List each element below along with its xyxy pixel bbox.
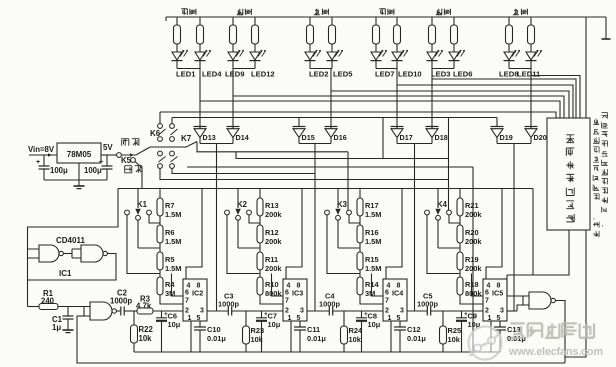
wire: rail to resistor at x=509: [508, 17, 510, 25]
resistor R20 200k: [457, 225, 463, 243]
svg-text:800k: 800k: [465, 289, 482, 298]
svg-text:800k: 800k: [265, 289, 282, 298]
resistor R12 200k: [257, 225, 263, 243]
wire: manual common bus: [150, 146, 185, 148]
wire: right contact tap: [249, 215, 260, 223]
switch K2 right contact: [247, 210, 252, 215]
wire: relay bus from group 5: [432, 79, 576, 118]
svg-text:1000p: 1000p: [110, 297, 132, 306]
capacitor C11 0.01μ on pin5: [299, 321, 301, 327]
wire: rail to resistor at x=310: [309, 17, 311, 25]
diode D16: [325, 126, 338, 128]
wire: rail drop to relay box top: [585, 17, 587, 118]
resistor (LED ballast) #4: [252, 25, 259, 44]
svg-text:R20: R20: [465, 228, 479, 237]
wire: rail to resistor at x=397: [396, 17, 398, 25]
svg-text:R12: R12: [265, 228, 279, 237]
LED LED12: [250, 52, 260, 60]
wire: pin7 link: [160, 295, 183, 304]
capacitor C9 10μ: [461, 311, 463, 318]
switch K7 contact pair: [170, 151, 175, 156]
wire: node to R1: [28, 306, 40, 308]
wire: gate IC1c output to C2: [116, 310, 120, 312]
capacitor input 100u: [43, 155, 45, 166]
wire: rail to resistor at x=432: [431, 17, 433, 25]
wire: pair join jog: [376, 68, 397, 70]
svg-text:R13: R13: [265, 201, 279, 210]
svg-text:LED3: LED3: [431, 70, 450, 79]
label: lamp color 绿色: [181, 9, 187, 15]
diode D17: [391, 126, 404, 128]
wire: D13/D14 anodes joined: [200, 143, 233, 145]
svg-text:100μ: 100μ: [50, 166, 68, 175]
diode D14: [227, 126, 240, 128]
wire: pin6 link: [472, 274, 484, 297]
wire: right contact tap: [449, 215, 460, 223]
switch K1 right contact: [147, 210, 152, 215]
LED LED5: [327, 52, 337, 60]
wire: gate input2 feed from IC5 pin3: [517, 305, 529, 311]
svg-text:1.5M: 1.5M: [165, 237, 181, 246]
label: lamp color 绿色: [379, 9, 385, 15]
op-amp gate IC1b (NAND): [81, 245, 103, 262]
wire: LED cathode down: [232, 61, 234, 69]
svg-text:LED11: LED11: [517, 70, 541, 79]
resistor R11 200k: [257, 252, 263, 270]
ground: regulator ground: [74, 185, 85, 187]
svg-text:10k: 10k: [139, 334, 153, 343]
wire: chain link: [359, 270, 361, 277]
wire: auto contact to 5V rail: [135, 162, 142, 189]
switch K5 common node: [117, 153, 122, 158]
svg-text:IC4: IC4: [392, 289, 403, 298]
gate IC1b inputs: [72, 249, 81, 258]
wire: C2 to R3: [124, 310, 137, 312]
svg-text:200k: 200k: [465, 210, 482, 219]
label: lamp color 黄色: [314, 9, 320, 15]
resistor R24 10k: [343, 311, 345, 326]
wire: group 4 drop to diode row: [396, 69, 398, 129]
regulator U 78M05: [57, 143, 101, 163]
wire: LED cathode down: [375, 61, 377, 69]
label: lamp color 红色: [237, 9, 243, 15]
svg-text:,: ,: [593, 214, 595, 221]
svg-text:100μ: 100μ: [84, 166, 102, 175]
capacitor C8 10μ: [361, 311, 363, 318]
wire: chain link: [259, 270, 261, 277]
wire: LED cathode down: [508, 61, 510, 69]
svg-text:D17: D17: [400, 133, 413, 142]
svg-text:,: ,: [602, 221, 604, 228]
wire: lower bus B: [236, 152, 449, 159]
capacitor C3 1000p coupling: [207, 310, 228, 312]
wire: K3 wiper tap: [338, 247, 360, 249]
svg-text:K2: K2: [237, 200, 248, 209]
LED LED8: [504, 52, 514, 60]
wire: K6 top riser to bus: [159, 112, 161, 124]
resistor R19 200k: [457, 252, 463, 270]
resistor R6 1.5M: [157, 225, 163, 243]
svg-text:10μ: 10μ: [168, 320, 181, 329]
wire: pair join jog: [432, 68, 454, 70]
svg-text:R21: R21: [465, 201, 479, 210]
svg-text:Vin=8V: Vin=8V: [28, 145, 55, 154]
svg-text:3M: 3M: [365, 289, 375, 298]
svg-text:78M05: 78M05: [67, 150, 92, 159]
wire: LED cathode down: [176, 61, 178, 69]
wire: chain link: [259, 243, 261, 252]
LED LED2: [305, 52, 315, 60]
wire: IC3 power pins 4,8 to rail: [286, 189, 302, 280]
svg-text:4: 4: [287, 283, 291, 290]
wire: D15/D16 anodes joined: [299, 143, 331, 145]
switch K6 contact pair: [158, 151, 163, 156]
wire: K4 wiper tap: [438, 247, 460, 249]
svg-text:1000p: 1000p: [218, 300, 239, 309]
svg-text:D15: D15: [302, 133, 315, 142]
wire: rail to resistor at x=332: [331, 17, 333, 25]
wire: LED cathode down: [396, 61, 398, 69]
wire: pin6 link: [372, 274, 384, 297]
wire: IC4 power pins 4,8 to rail: [386, 189, 402, 280]
switch K2 middle contact: [236, 215, 241, 220]
svg-text:0.01μ: 0.01μ: [207, 334, 226, 343]
relay box 六块固态继电器: [547, 118, 590, 230]
wire: LED cathode down: [309, 61, 311, 69]
svg-text:K5: K5: [121, 156, 132, 165]
svg-text:4: 4: [387, 283, 391, 290]
wire: pin1 to ground rail: [490, 321, 492, 352]
wire: feedback rail to IC1c: [77, 316, 565, 363]
wire: group 2 drop to diode row: [232, 69, 234, 129]
switch K7 throw arm: [185, 142, 197, 148]
wire: chain link: [459, 243, 461, 252]
wire: group 1 drop to diode row: [199, 69, 201, 129]
wire: relay bus from group 6: [531, 76, 580, 119]
wire: manual throw with arrow: [121, 147, 150, 155]
wire: top-right drop to termination: [605, 17, 607, 39]
op-amp timer IC3 (555): [283, 279, 307, 321]
diode D15: [293, 126, 306, 128]
svg-text:1: 1: [188, 315, 192, 322]
svg-text:200k: 200k: [265, 237, 282, 246]
svg-text:R19: R19: [465, 255, 479, 264]
wire: gate IC1c lower input: [77, 315, 84, 317]
diode D20: [525, 126, 538, 128]
svg-text:10k: 10k: [251, 335, 264, 344]
svg-text:LED5: LED5: [333, 70, 353, 79]
svg-text:1: 1: [488, 315, 492, 322]
label: side note column 1 控制红绿黄十二个灯，并与: [593, 119, 599, 125]
wire: lower bus A from K7 arm: [197, 142, 348, 152]
svg-text:1.5M: 1.5M: [165, 264, 181, 273]
svg-text:4: 4: [187, 283, 191, 290]
resistor (LED ballast) #5: [307, 25, 314, 44]
svg-text:200k: 200k: [265, 264, 282, 273]
wire: resistor to LED: [232, 44, 234, 52]
watermark text 电子发烧友: [510, 323, 524, 337]
diode D19: [491, 126, 504, 128]
wire: pin1 to ground rail: [290, 321, 292, 352]
wire: K1 wiper tap: [138, 247, 160, 249]
svg-text:LED8: LED8: [499, 70, 518, 79]
switch K3 right contact: [347, 210, 352, 215]
resistor R22 10k: [133, 311, 135, 325]
svg-text:C12: C12: [407, 325, 421, 334]
svg-text:C11: C11: [307, 325, 320, 334]
svg-text:2: 2: [185, 307, 189, 314]
svg-text:0.01μ: 0.01μ: [407, 334, 426, 343]
svg-text:4.7k: 4.7k: [136, 301, 152, 310]
diode D13: [194, 126, 207, 128]
svg-text:D20: D20: [534, 133, 547, 142]
resistor R21 200k: [457, 198, 463, 216]
svg-text:D13: D13: [203, 133, 216, 142]
label: lamp color 黄色: [513, 9, 519, 15]
svg-text:2: 2: [385, 307, 389, 314]
wire: chain link: [159, 243, 161, 252]
switch K4 left contact: [425, 210, 430, 215]
svg-text:6: 6: [485, 290, 489, 297]
LED LED6: [449, 52, 459, 60]
svg-text:10μ: 10μ: [368, 320, 381, 329]
svg-text:+: +: [36, 159, 40, 166]
svg-text:10μ: 10μ: [268, 320, 281, 329]
wire: left contact tap: [127, 215, 160, 274]
wire: bus A drop to K3 right contact: [347, 152, 349, 210]
wire: C5 to pin2: [431, 310, 483, 312]
wire: chain link: [359, 216, 361, 225]
watermark logo circle: [469, 327, 502, 360]
wire: rail to resistor at x=454: [453, 17, 455, 25]
capacitor C5 1000p coupling: [407, 310, 427, 312]
svg-text:R4: R4: [165, 280, 175, 289]
wire: lower bus C: [187, 166, 473, 168]
wire: IC5 power pins 4,8 to rail: [486, 189, 502, 280]
wire: rail to resistor at x=531: [530, 17, 532, 25]
wire: pin1 to ground rail: [190, 321, 192, 352]
svg-text:K7: K7: [181, 134, 192, 143]
wire: rail start tick: [165, 17, 167, 21]
svg-text:K3: K3: [337, 200, 348, 209]
resistor R17 1.5M: [357, 198, 363, 216]
resistor R15 1.5M: [357, 252, 363, 270]
wire: resistor to LED: [530, 44, 532, 52]
wire: R3 to stage1 trigger node: [153, 310, 183, 312]
gate IC1c inputs: [84, 307, 90, 317]
label: side note column 2 岗亭内显示的红绿灯相像: [602, 113, 608, 119]
resistor R18 800k: [457, 277, 463, 295]
svg-text:5: 5: [297, 315, 301, 322]
svg-text:D16: D16: [334, 133, 347, 142]
svg-text:D18: D18: [435, 133, 448, 142]
LED LED11: [526, 52, 536, 60]
svg-text:LED2: LED2: [309, 70, 328, 79]
wire: pin6 link: [272, 274, 284, 297]
wire: D19/D20 anodes joined: [497, 143, 531, 145]
capacitor C2 1000p: [120, 307, 122, 316]
op-amp gate IC1d (NAND output driver): [529, 292, 551, 309]
capacitor output 100u: [106, 155, 108, 166]
svg-text:4: 4: [487, 283, 491, 290]
wire: chain link: [459, 270, 461, 277]
capacitor C13 0.01μ on pin5: [499, 321, 501, 327]
svg-text:1.5M: 1.5M: [365, 264, 381, 273]
svg-text:D14: D14: [236, 133, 249, 142]
svg-text:R11: R11: [265, 255, 278, 264]
capacitor C12 0.01μ on pin5: [399, 321, 401, 327]
svg-text:IC5: IC5: [492, 289, 503, 298]
switch K3 wiper from rail: [337, 189, 339, 209]
wire: D13/D14 stem down to 555 output: [216, 144, 218, 312]
wire: rail to R17 chain: [359, 189, 361, 199]
wire: D17/D18 stem down to 555 output: [414, 144, 416, 312]
svg-text:5: 5: [497, 315, 501, 322]
wire: chain link: [359, 243, 361, 252]
svg-text:6: 6: [285, 290, 289, 297]
wire: rail to resistor at x=177: [176, 17, 178, 25]
wire: IC1a to IC1b: [63, 253, 72, 255]
switch K7 contact pair: [170, 124, 175, 129]
diode D18: [426, 126, 439, 128]
label manual 手动: [122, 139, 129, 146]
ground: C1 ground: [63, 329, 74, 331]
svg-text:5: 5: [197, 315, 201, 322]
op-amp gate IC1a (NAND): [39, 245, 59, 262]
wire: K7 bus drop to bus B: [382, 118, 384, 159]
switch K1 middle contact: [136, 215, 141, 220]
wire: pin7 link: [260, 295, 283, 304]
wire: D19 cathode stub to bus: [496, 118, 498, 127]
LED LED1: [172, 52, 182, 60]
op-amp timer IC5 (555): [483, 279, 507, 321]
switch K1 wiper from rail: [137, 189, 139, 209]
svg-text:1: 1: [388, 315, 392, 322]
resistor (LED ballast) #3: [230, 25, 237, 44]
svg-text:K1: K1: [137, 200, 148, 209]
svg-text:1.5M: 1.5M: [365, 237, 381, 246]
resistor (LED ballast) #1: [174, 25, 181, 44]
wire: group 6 drop to diode row: [530, 69, 532, 129]
wire: relay bus from group 2: [233, 96, 564, 118]
svg-text:R14: R14: [365, 280, 379, 289]
svg-text:LED7: LED7: [375, 70, 394, 79]
switch K6 contact pair: [158, 124, 163, 129]
capacitor C7 10μ: [261, 311, 263, 318]
wire: LED cathode down: [331, 61, 333, 69]
wire: D19/D20 stem down to 555 output: [513, 144, 515, 312]
svg-text:R25: R25: [448, 326, 462, 335]
svg-text:7: 7: [285, 298, 289, 305]
wire: resistor to LED: [254, 44, 256, 52]
resistor (LED ballast) #2: [197, 25, 204, 44]
capacitor C10 0.01μ on pin5: [199, 321, 201, 327]
svg-text:R23: R23: [251, 326, 265, 335]
wire: C4 to pin2: [333, 310, 383, 312]
wire: D15/D16 stem down to 555 output: [314, 144, 316, 312]
svg-text:LED10: LED10: [398, 70, 422, 79]
wire: ground rail: [134, 351, 500, 353]
svg-text:LED1: LED1: [176, 70, 196, 79]
LED LED9: [228, 52, 238, 60]
svg-text:C10: C10: [207, 325, 221, 334]
wire: resistor to LED: [309, 44, 311, 52]
svg-text:7: 7: [485, 298, 489, 305]
resistor (LED ballast) #10: [451, 25, 458, 44]
wire: resistor to LED: [176, 44, 178, 52]
wire: pin7 link: [360, 295, 383, 304]
resistor R4 3M: [157, 277, 163, 295]
svg-text:10k: 10k: [349, 335, 362, 344]
wire: IC1b output loop: [28, 254, 117, 281]
switch K3 left contact: [325, 210, 330, 215]
gate output NAND input stubs: [523, 296, 529, 305]
svg-text:7: 7: [385, 298, 389, 305]
wire: 5V output: [101, 154, 117, 156]
wire: pair join jog: [177, 68, 200, 70]
wire: D15 cathode stub to bus: [298, 118, 300, 127]
wire: LED cathode down: [453, 61, 455, 69]
wire: 5V distribution rail: [118, 188, 533, 190]
svg-text:R6: R6: [165, 228, 174, 237]
wire: left contact tap: [327, 215, 360, 274]
wire: rail to resistor at x=376: [375, 17, 377, 25]
resistor R1 240: [39, 304, 58, 310]
wire: pin1 to ground rail: [390, 321, 392, 352]
resistor (LED ballast) #8: [394, 25, 401, 44]
wire: resistor to LED: [331, 44, 333, 52]
wire: bus B drop to K4 right contact: [448, 118, 450, 211]
switch K4 right contact: [447, 210, 452, 215]
wire: pin6 link: [172, 274, 184, 297]
wire: resistor to LED: [375, 44, 377, 52]
wire: pair join jog: [310, 68, 332, 70]
wire: rail to resistor at x=200: [199, 17, 201, 25]
svg-text:2: 2: [485, 307, 489, 314]
svg-text:+: +: [99, 159, 103, 166]
wire: LED cathode down: [530, 61, 532, 69]
wire: right contact tap: [149, 215, 160, 223]
resistor R14 3M: [357, 277, 363, 295]
wire: pin7 link: [460, 295, 483, 304]
wire: relay box bottom drop B: [565, 230, 586, 357]
svg-text:240: 240: [41, 297, 55, 306]
svg-text:0.01μ: 0.01μ: [307, 334, 326, 343]
svg-text:1.5M: 1.5M: [165, 210, 181, 219]
svg-text:3: 3: [500, 307, 504, 314]
wire: rail end drop: [532, 189, 534, 276]
svg-text:6: 6: [385, 290, 389, 297]
svg-text:1.5M: 1.5M: [365, 210, 381, 219]
switch K5 auto contact: [131, 158, 136, 163]
wire: supply bottom link: [44, 179, 107, 181]
svg-text:K4: K4: [437, 200, 448, 209]
wire: bus from K7 to D19: [172, 117, 497, 119]
svg-text:R16: R16: [365, 228, 379, 237]
svg-text:R22: R22: [139, 325, 154, 334]
resistor R23 10k: [245, 311, 247, 326]
switch K2 left contact: [225, 210, 230, 215]
svg-text:1μ: 1μ: [52, 323, 61, 332]
wire: rail to R7 chain: [159, 189, 161, 199]
wire: rail to R21 chain: [459, 189, 461, 199]
resistor (LED ballast) #7: [373, 25, 380, 44]
svg-text:5: 5: [397, 315, 401, 322]
svg-text:3: 3: [200, 307, 204, 314]
wire: C3 to pin2: [232, 310, 283, 312]
svg-text:IC1: IC1: [59, 269, 72, 278]
wire: rail drop to IC1: [28, 189, 119, 307]
